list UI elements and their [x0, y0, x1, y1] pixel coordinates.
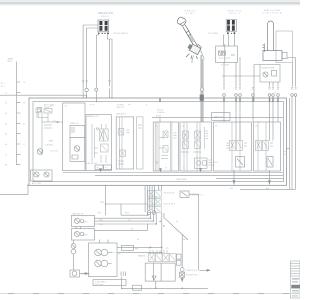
auxiliary block	[180, 191, 189, 198]
junction dots lower	[105, 203, 165, 289]
title block table	[290, 261, 300, 298]
pump outlet port bars	[121, 272, 125, 276]
label solenoid valve SV1	[99, 11, 115, 18]
svg-text:t5 -: t5 -	[5, 133, 8, 136]
wire motor to pump	[80, 273, 89, 275]
joystick lever	[176, 16, 201, 59]
solenoid cartridge block left	[70, 137, 85, 161]
label motor	[81, 274, 91, 276]
wire pump right link	[117, 246, 162, 248]
bottom manifold text	[176, 179, 187, 181]
port arrows into return line	[100, 169, 202, 172]
section 6 spools	[256, 122, 274, 171]
breather filter body	[263, 21, 274, 52]
electric motor	[70, 270, 80, 277]
gauge box 2	[71, 229, 94, 240]
label pilot connector	[208, 33, 218, 35]
junction dots bus	[27, 97, 273, 186]
svg-text:0.9 MPa: 0.9 MPa	[45, 144, 54, 146]
svg-text:RTN: RTN	[8, 61, 13, 63]
wire joystick pilot branch	[192, 56, 194, 64]
svg-text:ORIFICE 1.2: ORIFICE 1.2	[191, 195, 204, 197]
junction pump outlet 2	[161, 252, 162, 253]
wire pump outlet lines	[270, 82, 279, 87]
label pump unit	[262, 66, 276, 69]
pilot valve block	[216, 44, 238, 63]
wire joystick to manifold pair	[201, 55, 203, 122]
label port letters below manifold	[144, 187, 269, 190]
svg-text:SOL B 24V: SOL B 24V	[164, 203, 175, 205]
wire SV1 bottom port B jog	[107, 32, 112, 98]
svg-text:T RETURN: T RETURN	[176, 179, 187, 181]
wire manifold to lower riser	[105, 185, 107, 215]
svg-text:RED 3.5: RED 3.5	[71, 123, 80, 125]
label pilot block ports	[222, 64, 230, 67]
wire section 3 riser	[159, 118, 161, 122]
section 5 header box	[212, 112, 230, 120]
svg-text:GAUGE X3: GAUGE X3	[72, 212, 84, 215]
svg-text:SET 0.2: SET 0.2	[117, 107, 126, 109]
wire SV1 left port A	[83, 25, 98, 79]
svg-text:MAIN 20.6: MAIN 20.6	[214, 116, 225, 119]
svg-text:t4 -: t4 -	[5, 122, 8, 125]
accumulator pair block	[31, 170, 53, 181]
wire couplers to manifold left	[83, 79, 109, 102]
svg-text:14/22 MPa: 14/22 MPa	[95, 281, 106, 283]
wire gauge link vertical	[76, 227, 81, 229]
solenoid valve SV1	[98, 20, 109, 34]
return filter	[180, 272, 185, 277]
svg-text:PILOT: PILOT	[157, 110, 164, 112]
junction bottom return	[181, 288, 183, 290]
label auxiliary block	[191, 195, 204, 197]
svg-text:RELIEF V: RELIEF V	[117, 113, 127, 115]
label section 5 header	[214, 116, 225, 119]
label pressure switch	[212, 162, 219, 167]
bracket plate right	[276, 31, 292, 63]
label valve bank left	[138, 255, 146, 258]
manifold outer box	[29, 98, 287, 185]
label section 2 ports	[97, 168, 109, 170]
label manifold section 1	[44, 104, 54, 110]
svg-text:4WD-1: 4WD-1	[101, 16, 110, 18]
label solenoid valve SV2	[228, 10, 243, 16]
valve section 4 box	[180, 122, 212, 171]
svg-text:CTRL: CTRL	[186, 13, 196, 15]
wire bottom return long	[156, 287, 208, 289]
wire drain stub right	[200, 269, 210, 271]
svg-text:21 MPa: 21 MPa	[117, 104, 125, 106]
label section 1 gauge	[45, 141, 54, 147]
label accumulator	[32, 182, 42, 185]
orifice section 1	[36, 108, 52, 128]
svg-text:SOL A 24V: SOL A 24V	[164, 191, 175, 194]
pilot supply section box A	[63, 103, 85, 171]
svg-text:BANK4: BANK4	[138, 255, 146, 258]
section 4 spools	[181, 122, 208, 171]
hose break symbols right group	[223, 88, 297, 90]
label coupler row	[226, 92, 277, 94]
label section3 internals	[155, 126, 259, 170]
svg-text:DR 10: DR 10	[182, 239, 189, 241]
label bus ports	[90, 103, 148, 106]
svg-text:CHECK 0.1: CHECK 0.1	[186, 270, 198, 272]
tank box	[145, 263, 175, 281]
label rail ports	[1, 81, 26, 167]
wire manifold drop bundle	[145, 185, 161, 212]
check valve drain	[180, 268, 184, 272]
wire section 6 outlet arrow	[268, 170, 270, 182]
junction blocks at bus crossings	[160, 98, 278, 102]
wire pump second outlet	[117, 251, 162, 253]
section 2b internals	[118, 117, 130, 169]
svg-text:BRAKE SOL: BRAKE SOL	[99, 11, 115, 15]
wire outer return tick	[287, 148, 290, 150]
svg-text:VOE 11411 A: VOE 11411 A	[263, 12, 283, 15]
svg-text:4WD-2: 4WD-2	[229, 13, 241, 15]
pump unit box	[260, 65, 280, 83]
valve section 3 box	[153, 122, 178, 171]
junction block joystick at bus	[200, 95, 204, 101]
label tank port rail	[8, 58, 14, 64]
wire bracket drop	[291, 63, 293, 87]
svg-text:FM: FM	[135, 249, 138, 251]
label check valve	[50, 150, 59, 152]
section 5 spools	[227, 122, 248, 171]
wire pilot block down lines	[224, 57, 240, 87]
wire pilot header line	[152, 117, 283, 119]
svg-text:P T A B: P T A B	[222, 64, 230, 67]
port lines below sections	[63, 173, 283, 179]
svg-text:GEAR PUMP: GEAR PUMP	[262, 66, 276, 69]
svg-text:CV 0.04: CV 0.04	[50, 150, 59, 152]
svg-text:X1 CONN: X1 CONN	[208, 33, 218, 35]
wire joystick drain diagonal	[200, 49, 204, 60]
wire pump bottom loop	[122, 277, 156, 289]
main pump unit box	[89, 243, 118, 277]
svg-text:t3 -: t3 -	[5, 112, 8, 115]
label flow meter	[135, 249, 138, 251]
label gauge 1	[83, 221, 88, 223]
orifice circles on lines	[147, 211, 151, 215]
manifold inner box	[33, 102, 284, 182]
wire pump left drain	[254, 65, 260, 102]
pressure switch box section 4	[195, 158, 212, 168]
label pump data	[95, 281, 106, 286]
section 5 sub valve	[236, 157, 245, 168]
wire SV1 bottom port A	[96, 32, 98, 88]
label valve column	[164, 191, 175, 205]
flow meter box	[122, 245, 134, 250]
wire left supply	[0, 95, 86, 98]
brake valve section 2 box	[86, 115, 111, 171]
svg-text:46 L/min: 46 L/min	[95, 284, 104, 286]
svg-text:VOE 11445021: VOE 11445021	[113, 33, 129, 35]
check valve section 1	[37, 149, 43, 155]
svg-text:AIR FILTER: AIR FILTER	[264, 9, 280, 12]
valve section 6 box	[254, 122, 281, 171]
quick coupler joystick line	[201, 88, 204, 91]
svg-text:t2 -: t2 -	[5, 102, 8, 105]
wire column risers	[148, 213, 157, 224]
label pump unit right	[108, 252, 116, 254]
junction flow line	[150, 247, 163, 248]
pump block upper	[263, 51, 282, 61]
wire pilot cross line	[222, 75, 260, 77]
gauge second dials	[80, 219, 84, 223]
page fold line bottom	[0, 293, 300, 295]
section 3 spools	[155, 122, 177, 171]
label breather assembly	[263, 9, 283, 15]
junction dots gauge lines	[147, 215, 157, 225]
wire tank return left	[0, 185, 28, 194]
wire outer return right	[240, 98, 296, 189]
hose break symbols left	[82, 81, 110, 83]
svg-text:T2 ---: T2 ---	[1, 86, 7, 88]
pilot valve bank row	[148, 250, 176, 262]
wire boss to outer return	[287, 58, 296, 87]
section 2 bottom ports	[95, 165, 112, 170]
svg-text:X100: X100	[44, 107, 50, 109]
wire lower link right	[106, 203, 148, 205]
relief valve section 1	[36, 108, 63, 156]
svg-text:FILTER 10u: FILTER 10u	[186, 274, 198, 276]
wire SV2 leads	[228, 35, 234, 47]
label gauge 2	[83, 235, 88, 237]
label right edge marks	[284, 151, 287, 156]
charge pump small	[71, 240, 76, 270]
svg-text:X200: X200	[156, 116, 162, 118]
wire pump box risers	[100, 240, 109, 244]
label brake valve section 2	[87, 115, 100, 118]
label lower line tags	[99, 202, 178, 256]
label bottom ports text	[85, 162, 98, 165]
label bank feed	[148, 248, 152, 250]
wires couplers into manifold sections	[224, 97, 296, 190]
gauge box 1	[71, 215, 94, 226]
quick coupler circles right group	[223, 94, 226, 97]
svg-text:ACC 0.5L: ACC 0.5L	[32, 182, 42, 185]
quick coupler circle L1	[85, 88, 88, 91]
svg-text:3.9MPa: 3.9MPa	[157, 112, 165, 114]
svg-text:T1 ---: T1 ---	[1, 83, 7, 85]
wire auxiliary drop	[189, 194, 199, 270]
section 6 sub valve	[267, 157, 273, 168]
wire X1 riser	[223, 35, 225, 47]
label bundle	[155, 196, 158, 205]
label SV1 part number	[113, 33, 129, 35]
wire section 5 outlet arrow	[233, 170, 235, 182]
svg-text:PS 0.5: PS 0.5	[212, 162, 219, 164]
section 2 spool cells	[92, 124, 108, 163]
label reducing valve	[71, 123, 80, 125]
svg-text:A1 B1 A2 B2: A1 B1 A2 B2	[85, 162, 98, 165]
quick coupler circle L2	[95, 88, 98, 91]
pump data box	[93, 280, 126, 286]
svg-text:t8 -: t8 -	[5, 164, 8, 167]
suction strainer	[152, 276, 156, 280]
junction box return line	[133, 285, 142, 290]
wire SV1 left port B	[87, 28, 98, 79]
label drain components	[186, 270, 198, 276]
svg-text:P 46cc: P 46cc	[108, 252, 116, 254]
solenoid valve SV2	[226, 20, 236, 35]
label gauge panel	[72, 212, 102, 215]
label section A	[50, 106, 68, 123]
wire gauge lines to valve column	[95, 204, 157, 230]
solenoid valve column	[148, 191, 161, 213]
svg-text:dr: dr	[176, 220, 178, 223]
label joystick control	[185, 11, 196, 16]
svg-text:BRAKE VLV: BRAKE VLV	[87, 115, 100, 118]
wire drain diagonal	[164, 218, 188, 240]
reducing valve section left	[70, 125, 85, 137]
companion column section 2b	[137, 117, 144, 169]
relief stack right of bank	[177, 254, 182, 265]
unload valve section 2b box	[116, 117, 134, 169]
pump block side boss	[282, 53, 287, 59]
tank port rail	[17, 62, 21, 166]
label center text column	[117, 104, 166, 117]
svg-text:MP1: MP1	[49, 141, 54, 143]
svg-text:t7 -: t7 -	[5, 153, 8, 156]
arrow drain bottom	[181, 279, 183, 282]
svg-text:t6 -: t6 -	[5, 143, 8, 146]
valve section 5 box	[213, 122, 251, 171]
wire column down pair	[162, 213, 164, 254]
label drain diagonal	[182, 239, 189, 241]
wire drain vertical	[181, 235, 183, 282]
svg-text:t1 -: t1 -	[5, 91, 8, 94]
